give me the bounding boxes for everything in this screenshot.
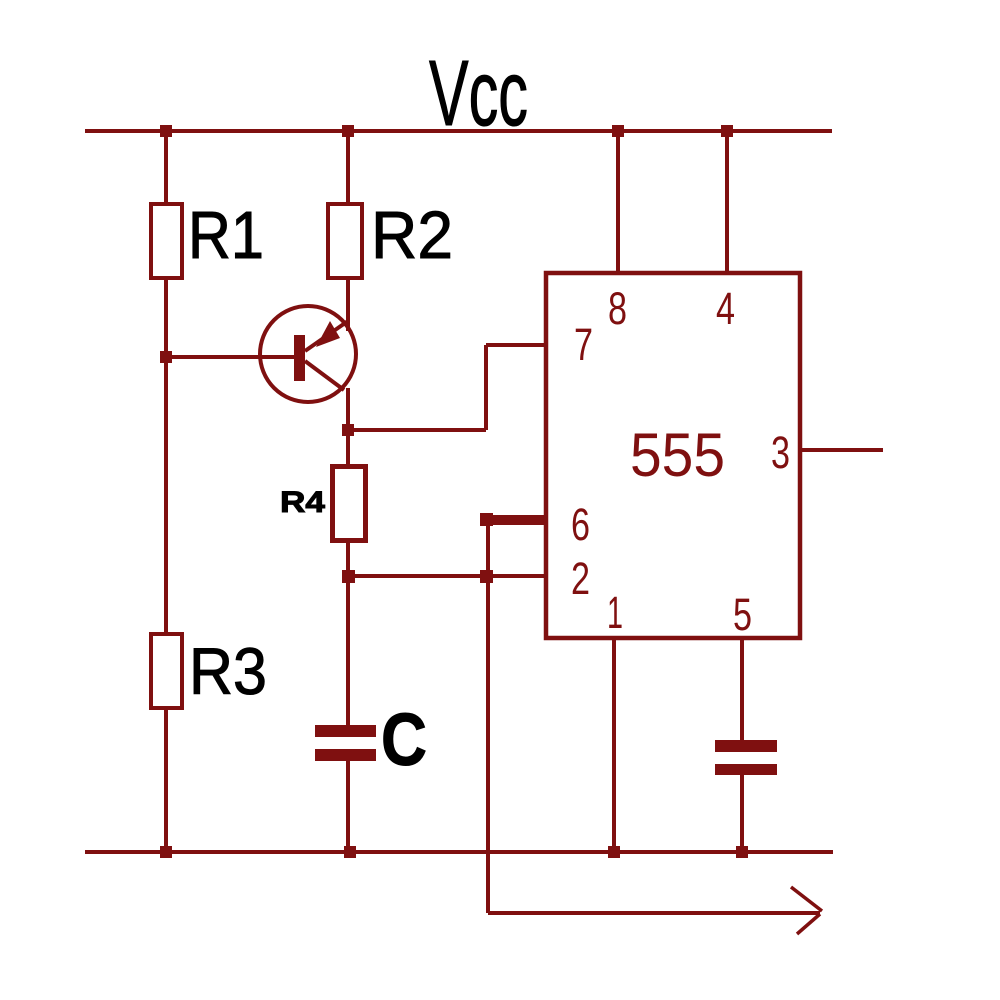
svg-text:R4: R4 (280, 486, 325, 519)
svg-text:R3: R3 (189, 634, 267, 708)
svg-text:Vcc: Vcc (429, 41, 528, 145)
svg-text:4: 4 (716, 283, 735, 334)
svg-text:8: 8 (608, 283, 627, 334)
svg-text:R2: R2 (371, 198, 453, 273)
svg-text:555: 555 (630, 421, 725, 489)
svg-text:5: 5 (733, 589, 752, 640)
svg-text:R1: R1 (188, 198, 264, 273)
svg-text:2: 2 (571, 553, 590, 604)
svg-text:3: 3 (771, 427, 790, 478)
svg-text:1: 1 (607, 587, 623, 638)
svg-text:C: C (381, 698, 427, 781)
svg-text:7: 7 (574, 319, 593, 370)
svg-text:6: 6 (571, 499, 590, 550)
